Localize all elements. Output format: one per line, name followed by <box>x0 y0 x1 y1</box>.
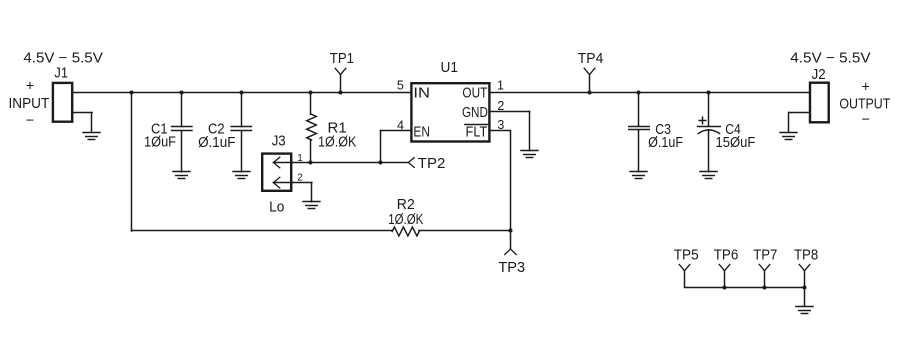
ground (J2) <box>780 133 797 140</box>
ground (C2) <box>233 172 250 179</box>
ground (J3 pin 2) <box>303 202 320 209</box>
svg-text:GND: GND <box>462 105 488 121</box>
ground (J1) <box>83 133 100 140</box>
svg-text:J1: J1 <box>54 66 68 82</box>
svg-text:TP3: TP3 <box>498 260 525 276</box>
node junction C1 / input rail <box>180 91 184 95</box>
svg-text:TP5: TP5 <box>674 247 699 263</box>
label + polarity (C4) <box>699 117 706 124</box>
wire TP8 bus to ground <box>804 288 806 307</box>
wire feedback loop: down left side and along bottom to R2 <box>132 93 393 232</box>
capacitor C2 <box>241 93 243 127</box>
svg-text:EN: EN <box>413 124 430 140</box>
svg-text:OUTPUT: OUTPUT <box>839 97 890 113</box>
connector J2 <box>810 83 829 123</box>
svg-text:2: 2 <box>497 99 504 113</box>
test point TP6 <box>719 264 730 287</box>
test point TP4 <box>584 68 595 92</box>
svg-text:4.5V − 5.5V: 4.5V − 5.5V <box>790 51 871 67</box>
svg-text:4.5V − 5.5V: 4.5V − 5.5V <box>23 51 103 67</box>
wire U1 FLT right and down to R2 <box>490 131 510 232</box>
wire J2 pin 2 to ground <box>789 113 810 133</box>
svg-text:4: 4 <box>397 118 404 132</box>
wire test point bus TP5..TP8 <box>685 287 805 289</box>
svg-text:J2: J2 <box>812 67 826 83</box>
capacitor C4 (polarized) <box>708 93 710 127</box>
test point TP5 <box>679 264 690 287</box>
svg-text:TP4: TP4 <box>578 51 604 67</box>
svg-text:TP6: TP6 <box>714 247 739 263</box>
node junction TP1 / input rail <box>339 91 343 95</box>
svg-text:−: − <box>26 113 34 129</box>
node junction R1 top / input rail <box>309 91 313 95</box>
svg-text:15ØuF: 15ØuF <box>716 135 756 151</box>
node junction TP8 / bus <box>803 286 807 290</box>
svg-text:OUT: OUT <box>462 85 487 101</box>
wire J3 pin 1 to R1 bottom / TP2 <box>293 162 409 164</box>
node junction TP7 / bus <box>763 286 767 290</box>
svg-text:1: 1 <box>497 78 504 92</box>
svg-text:TP8: TP8 <box>794 247 818 263</box>
ground (C1) <box>173 172 190 179</box>
resistor R1 <box>310 93 312 115</box>
svg-text:Ø.1uF: Ø.1uF <box>198 135 236 151</box>
test point TP2 (opens right) <box>408 158 414 168</box>
ground (C3) <box>630 172 647 179</box>
resistor R2 <box>419 230 510 232</box>
connector J1 <box>53 83 72 122</box>
svg-text:1Ø.ØK: 1Ø.ØK <box>318 135 357 151</box>
test point TP7 <box>759 264 770 287</box>
IC U1 voltage regulator <box>411 83 489 141</box>
node junction input rail / feedback loop <box>130 91 134 95</box>
svg-text:U1: U1 <box>441 60 459 76</box>
capacitor C1 <box>181 93 183 127</box>
wire J3 pin 2 to ground <box>293 183 312 202</box>
node junction TP2 / EN riser <box>379 161 383 165</box>
wire J1 pin 2 to ground <box>73 113 92 133</box>
node junction C3 / output rail <box>637 91 641 95</box>
node junction C4 / output rail <box>707 91 711 95</box>
wire output rail U1 OUT to J2 <box>490 92 809 94</box>
svg-text:IN: IN <box>413 85 430 101</box>
svg-text:+: + <box>861 80 869 96</box>
wire input rail J1 to U1 pin IN <box>73 92 411 94</box>
svg-text:J3: J3 <box>272 134 286 150</box>
svg-text:1Ø.ØK: 1Ø.ØK <box>388 212 423 228</box>
svg-text:FLT: FLT <box>466 124 488 140</box>
svg-text:TP7: TP7 <box>753 247 777 263</box>
node junction TP6 / bus <box>723 286 727 290</box>
test point TP1 <box>335 68 346 92</box>
J3 pin 2 arrow <box>273 177 292 188</box>
wire EN riser to U1 pin EN <box>381 131 411 163</box>
node junction C2 / input rail <box>240 91 244 95</box>
svg-text:Lo: Lo <box>269 200 284 216</box>
connector J3 <box>262 154 291 191</box>
test point TP8 <box>799 264 810 287</box>
node junction TP4 / output rail <box>588 91 592 95</box>
C4 curved bottom plate <box>698 130 719 134</box>
svg-text:5: 5 <box>397 78 404 92</box>
svg-text:INPUT: INPUT <box>9 96 50 112</box>
svg-text:R2: R2 <box>397 197 415 213</box>
ground (U1 GND) <box>521 151 538 158</box>
svg-text:1ØuF: 1ØuF <box>144 135 176 151</box>
svg-text:+: + <box>26 79 34 95</box>
test point TP3 (opens down) <box>505 231 517 255</box>
svg-text:TP1: TP1 <box>330 51 354 67</box>
svg-text:TP2: TP2 <box>418 156 446 172</box>
svg-text:−: − <box>861 112 869 128</box>
wire U1 GND to ground <box>490 112 529 151</box>
J3 pin 1 arrow <box>273 157 292 168</box>
ground (TP8 bus) <box>796 307 813 314</box>
capacitor C3 <box>638 93 640 127</box>
ground (C4) <box>700 172 717 179</box>
node junction R1 bottom / J3 pin 1 <box>309 161 313 165</box>
svg-text:Ø.1uF: Ø.1uF <box>648 135 683 151</box>
FLT overline <box>465 124 488 126</box>
node junction R2 / FLT / TP3 <box>509 229 513 233</box>
